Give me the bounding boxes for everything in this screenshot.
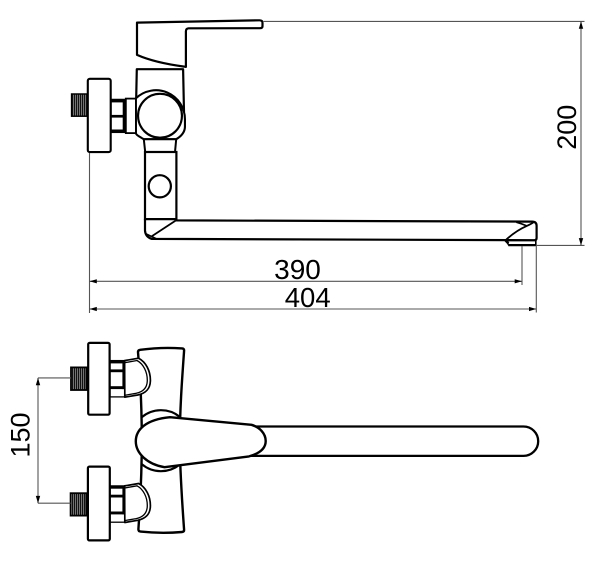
wall escutcheon (side view) (88, 79, 111, 152)
threaded nipple upper (plan) (71, 367, 87, 390)
svg-text:404: 404 (285, 282, 331, 313)
inlet bell upper inner arc (125, 361, 148, 396)
valve housing body (136, 90, 185, 139)
spout corner sliver line (146, 234, 157, 239)
neck below valve (144, 139, 176, 152)
dimension line 150 (37, 378, 39, 503)
faucet body (plan) (138, 348, 184, 533)
small port circle (149, 175, 171, 197)
valve cartridge circle (138, 94, 182, 138)
spout bar (plan) (248, 427, 538, 456)
svg-text:150: 150 (5, 412, 35, 457)
extension line aerator bottom (536, 244, 585, 246)
spout bend miter line (152, 221, 176, 237)
handle lever (plan) (136, 417, 266, 467)
union nut (side view) (111, 99, 126, 132)
dome arc upper (142, 410, 180, 417)
svg-text:390: 390 (274, 254, 321, 285)
connector block (126, 99, 136, 134)
spout tip inner curve (506, 222, 534, 240)
centerline nipple lower (38, 502, 71, 504)
handle lever (side view) (137, 20, 263, 67)
drop column (145, 152, 176, 219)
L-shaped spout (side view) (145, 219, 537, 240)
body column under handle (136, 69, 184, 112)
dome arc lower (142, 464, 180, 471)
extension line spout 404 (535, 246, 537, 313)
escutcheon lower (plan) (88, 467, 110, 541)
inlet bell lower (125, 484, 151, 523)
inlet bell upper (125, 358, 151, 397)
spout tip second curve (516, 222, 527, 226)
inlet bell lower inner arc (125, 486, 148, 521)
aerator left step (506, 240, 509, 243)
dimension line 390 (90, 280, 523, 282)
svg-text:200: 200 (552, 105, 582, 150)
extension line handle top (264, 20, 585, 22)
dimension line 200 (580, 21, 582, 245)
centerline nipple upper (38, 377, 71, 379)
threaded nipple (side view) (72, 94, 88, 116)
union nut upper (plan) (110, 361, 125, 397)
dimension line 404 (90, 308, 537, 310)
extension line wall left (89, 153, 91, 313)
extension line spout 390 (521, 246, 523, 285)
threaded nipple lower (plan) (71, 493, 87, 515)
escutcheon upper (plan) (88, 343, 109, 415)
union nut lower (plan) (110, 486, 125, 522)
aerator under spout tip (506, 241, 536, 245)
